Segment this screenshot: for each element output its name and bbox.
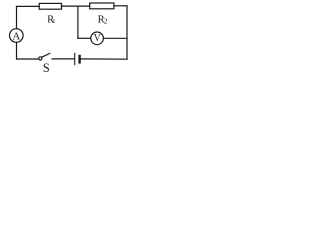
wire top-right horizontal: [114, 5, 127, 7]
svg-text:2: 2: [104, 17, 108, 25]
svg-text:A: A: [12, 30, 20, 42]
wire branch vertical (node to voltmeter): [77, 6, 79, 38]
wire branch to voltmeter: [78, 37, 91, 39]
wire top middle: [62, 5, 90, 7]
wire left vertical lower: [16, 42, 18, 59]
switch S: [39, 53, 50, 60]
svg-text:S: S: [43, 61, 50, 75]
resistor R2: [90, 3, 114, 9]
ammeter A: [9, 29, 23, 43]
voltmeter V: [91, 32, 104, 45]
wire voltmeter to right vertical: [103, 37, 127, 39]
svg-text:1: 1: [52, 18, 55, 25]
wire bottom middle: [52, 58, 74, 60]
svg-text:V: V: [94, 33, 102, 44]
label R2: [98, 15, 108, 26]
label R1: [47, 15, 55, 26]
wire right vertical: [126, 6, 128, 59]
wire top-left horizontal: [17, 5, 40, 7]
resistor R1: [39, 3, 61, 9]
battery cell: [75, 53, 80, 64]
wire bottom-left horizontal: [17, 58, 39, 60]
wire left vertical upper: [16, 6, 18, 28]
wire bottom-right horizontal: [81, 58, 127, 60]
